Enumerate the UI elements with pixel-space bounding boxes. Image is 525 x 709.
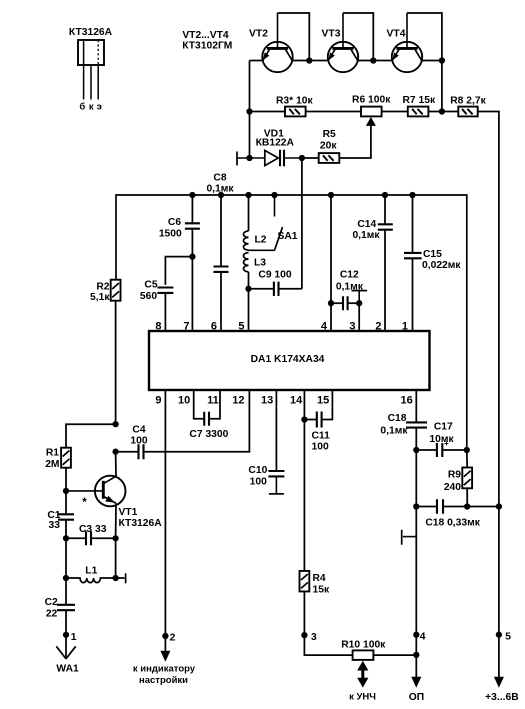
junction L1 left	[63, 575, 69, 581]
svg-text:КТ3126А: КТ3126А	[119, 518, 163, 529]
svg-text:VT1: VT1	[119, 507, 138, 518]
junction node VT4 collector	[439, 57, 445, 63]
node 5 on +supply rail	[496, 632, 502, 638]
junction bus-C8	[218, 192, 224, 198]
wire pin 13 down to C10	[275, 390, 277, 471]
capacitor C18 0,1мк	[380, 413, 427, 437]
svg-text:КВ122А: КВ122А	[256, 138, 295, 149]
svg-text:C9 100: C9 100	[258, 270, 291, 281]
svg-text:L1: L1	[85, 566, 97, 577]
wire R1/R2 node	[112, 421, 118, 427]
junction bus-pin5	[245, 192, 251, 198]
inductor L1	[66, 566, 116, 583]
wire pin3 line	[358, 303, 360, 331]
wire C12 left to pin4 line	[331, 302, 343, 304]
wire VT2 collector to VT3 emitter	[292, 60, 328, 62]
wire node to R1 top	[66, 424, 116, 448]
svg-text:100: 100	[312, 442, 329, 453]
svg-text:L3: L3	[254, 257, 266, 268]
resistor R2 5,1к	[90, 280, 120, 303]
svg-text:к индикатору: к индикатору	[133, 663, 196, 674]
transistor VT3	[322, 13, 359, 72]
junction +rail/C18b	[496, 503, 502, 509]
node 3	[301, 632, 307, 638]
svg-text:240: 240	[444, 482, 461, 493]
svg-text:C18: C18	[388, 413, 407, 424]
svg-text:R6 100к: R6 100к	[352, 95, 391, 106]
feedback loop wire VT2 base-collector	[278, 13, 310, 61]
capacitor C18 0,33мк	[425, 499, 480, 528]
node 1	[63, 632, 69, 638]
svg-text:VT3: VT3	[322, 29, 341, 40]
junction pin7-C5 branch	[189, 253, 195, 259]
wire R4 to node 3	[303, 591, 305, 635]
svg-text:C2: C2	[45, 597, 58, 608]
svg-text:R8 2,7к: R8 2,7к	[450, 95, 486, 106]
IC DA1 К174ХА34	[149, 331, 430, 390]
wire C9 node to pin 5	[248, 289, 250, 331]
svg-text:0,1мк: 0,1мк	[352, 230, 380, 241]
svg-text:22: 22	[46, 608, 58, 619]
antenna WA1	[56, 635, 79, 675]
transistor VT2	[249, 13, 293, 72]
svg-text:0,1мк: 0,1мк	[380, 426, 408, 437]
svg-text:7: 7	[183, 320, 189, 332]
svg-text:12: 12	[232, 394, 244, 406]
wire pin 9 down to node 2	[164, 390, 166, 636]
junction pin16/C18b	[413, 503, 419, 509]
wire VT4 node to R8	[442, 111, 459, 113]
stub with T-bar on ОП line	[403, 536, 416, 538]
wire L3 to C9 node	[248, 272, 250, 289]
wire C18b to R9 node to +rail	[443, 506, 499, 508]
wire pin1 line	[412, 195, 414, 253]
junction bus-pin1	[409, 192, 415, 198]
svg-text:C7 3300: C7 3300	[189, 429, 228, 440]
wire pin14 down to R4	[303, 420, 305, 571]
wire pin6 line	[220, 195, 222, 267]
capacitor C1 33	[47, 510, 74, 531]
capacitor C14 0,1мк on pin 2 line	[352, 219, 392, 241]
varicap diode VD1 КВ122А	[237, 128, 302, 166]
junction node VD1 cathode	[299, 155, 305, 161]
svg-text:1: 1	[71, 632, 77, 643]
inductor L2	[244, 231, 267, 250]
potentiometer R6 100к	[352, 95, 391, 117]
wire R10 right to ОП line	[373, 654, 416, 656]
svg-text:15: 15	[317, 394, 329, 406]
wire bus to L2	[248, 195, 250, 231]
junction node VT2 collector	[306, 57, 312, 63]
svg-text:C8: C8	[213, 172, 226, 183]
svg-text:DA1 K174XA34: DA1 K174XA34	[251, 354, 325, 365]
junction bus-pin2	[382, 192, 388, 198]
capacitor C2 22	[45, 597, 75, 619]
capacitor C11 100 to pin 15	[312, 412, 331, 453]
svg-text:R10 100к: R10 100к	[341, 639, 386, 650]
wire bus rail to R9	[466, 450, 468, 468]
svg-text:0,022мк: 0,022мк	[422, 260, 461, 271]
R6 wiper arrow	[366, 117, 376, 126]
junction C4/VT1	[112, 449, 118, 455]
wire VT1 emitter up to C4 node	[115, 452, 117, 477]
svg-text:0,1мк: 0,1мк	[206, 183, 234, 194]
svg-text:+: +	[444, 439, 449, 448]
svg-text:C14: C14	[357, 219, 376, 230]
transistor VT1 КТ3126А	[66, 476, 162, 530]
node 2	[162, 633, 168, 639]
svg-text:C15: C15	[423, 249, 442, 260]
svg-text:VT4: VT4	[387, 29, 406, 40]
junction C3 left	[63, 535, 69, 541]
svg-text:560: 560	[140, 291, 157, 302]
wire VT4 collector	[422, 60, 442, 62]
svg-text:R2: R2	[96, 282, 109, 293]
svg-text:100: 100	[250, 477, 267, 488]
wire rail to R3	[250, 111, 286, 113]
svg-text:R9: R9	[448, 470, 461, 481]
svg-text:11: 11	[207, 394, 219, 406]
svg-text:э: э	[97, 102, 102, 113]
svg-text:R7 15к: R7 15к	[402, 95, 435, 106]
svg-text:2: 2	[170, 633, 176, 644]
wire C18 to C17 node	[415, 428, 417, 450]
junction pin14/C11	[301, 416, 307, 422]
capacitor C9 100	[258, 270, 291, 296]
svg-text:C17: C17	[434, 422, 453, 433]
wire pin16 line down through stub to node 4	[415, 450, 417, 655]
junction C17 left	[413, 447, 419, 453]
resistor R4 15к	[300, 571, 330, 596]
wire C9 left	[249, 288, 274, 290]
svg-text:13: 13	[261, 394, 273, 406]
svg-text:КТ3126А: КТ3126А	[69, 27, 113, 38]
svg-text:1500: 1500	[159, 228, 182, 239]
svg-text:C18 0,33мк: C18 0,33мк	[425, 518, 480, 529]
wire C12 right to pin3 line	[348, 302, 360, 304]
capacitor C3 33	[79, 524, 107, 545]
wire L1 right stub with T-bar	[116, 577, 125, 579]
junction bus-pin4	[328, 192, 334, 198]
wire pin2 line	[384, 195, 386, 224]
svg-text:R5: R5	[323, 129, 336, 140]
wire R7 to VT4 node	[428, 111, 442, 113]
wire pin16 line to C18b	[416, 506, 436, 508]
svg-text:C12: C12	[340, 269, 359, 280]
label VT2...VT4 КТ3102ГМ	[182, 30, 232, 51]
capacitor C15 0,022мк on pin 1 line	[404, 249, 461, 271]
wire C5 to pin 8	[164, 293, 166, 331]
svg-text:5: 5	[238, 320, 244, 332]
wire C4 left to VT1 collector node	[116, 451, 139, 453]
wire pin 14 down	[303, 390, 305, 420]
svg-text:КТ3102ГМ: КТ3102ГМ	[182, 40, 232, 51]
svg-text:10: 10	[178, 394, 190, 406]
junction L1 right	[112, 575, 118, 581]
wire VD1 node down to C9 (crosses bus)	[301, 158, 303, 289]
svg-text:20к: 20к	[320, 140, 337, 151]
junction R9 bottom	[464, 503, 470, 509]
switch SA1	[249, 195, 298, 250]
svg-text:WA1: WA1	[56, 664, 79, 675]
junction bus-SA1	[271, 192, 277, 198]
wire base node to C1	[65, 491, 67, 514]
arrow +3...6В supply	[498, 635, 500, 678]
svg-text:+3...6В: +3...6В	[485, 692, 519, 703]
svg-text:L2: L2	[254, 234, 266, 245]
R10 wiper double arrow to к УНЧ	[349, 661, 376, 703]
svg-text:C6: C6	[168, 217, 181, 228]
wire VT1 collector down	[115, 503, 117, 538]
wire R6 to R7	[382, 111, 408, 113]
wire C1 to C3 node	[65, 520, 67, 539]
wire C9 right to varicap line	[279, 288, 302, 290]
junction C3 right	[112, 535, 118, 541]
resistor R7 15к	[402, 95, 435, 117]
wire pin 12 down and left to C4	[144, 390, 249, 452]
label C8 0,1мк	[206, 172, 234, 194]
wire pin4 line	[330, 195, 332, 331]
wire R9 to C18b node	[466, 488, 468, 506]
svg-text:1: 1	[402, 320, 408, 332]
svg-text:4: 4	[420, 632, 426, 643]
svg-text:3: 3	[349, 320, 355, 332]
svg-text:6: 6	[211, 320, 217, 332]
resistor R9 240	[444, 468, 472, 494]
junction C12 left	[328, 300, 334, 306]
wire L1 to C2	[65, 578, 67, 605]
junction base node	[63, 488, 69, 494]
wire R8 to +supply right rail	[478, 112, 499, 635]
resistor R3* 10к	[276, 95, 313, 116]
svg-text:*: *	[82, 495, 87, 509]
capacitor C5 560 on pin 8 line	[140, 279, 173, 302]
junction bus-pin7	[189, 192, 195, 198]
transistor package drawing КТ3126А (top left)	[69, 27, 113, 112]
wire R3 to R6	[306, 111, 361, 113]
junction node L3/C9/pin5	[245, 286, 251, 292]
svg-text:C3 33: C3 33	[79, 524, 107, 535]
svg-text:R3* 10к: R3* 10к	[276, 95, 313, 106]
capacitor C12 0,1мк with top stub	[336, 269, 367, 310]
transistor VT4	[387, 13, 423, 72]
wire VT4 collector down to resistor row	[441, 61, 443, 112]
svg-text:б: б	[79, 102, 85, 113]
wire tuning bus line	[116, 195, 467, 450]
svg-text:4: 4	[321, 320, 328, 332]
capacitor C4 100	[130, 425, 147, 460]
wire VT3 collector to VT4 emitter	[358, 60, 393, 62]
svg-text:VT2: VT2	[249, 29, 268, 40]
svg-text:C11: C11	[312, 431, 331, 442]
svg-text:ОП: ОП	[409, 692, 424, 703]
wire left rail emitters down to VD1 row	[249, 61, 251, 159]
svg-text:5: 5	[505, 632, 511, 643]
svg-text:настройки: настройки	[139, 675, 188, 686]
junction node VT3 collector	[370, 57, 376, 63]
wire R2 down to VT1 node	[115, 301, 117, 424]
wire VD1 node to R5	[302, 157, 319, 159]
wire node 3 to R10	[304, 635, 352, 655]
svg-text:5,1к: 5,1к	[90, 292, 110, 303]
svg-text:15к: 15к	[313, 585, 330, 596]
wire C2 to node 1	[65, 610, 67, 635]
inductor L3	[244, 253, 267, 272]
node 4	[413, 632, 419, 638]
feedback loop wire VT3 base-collector	[343, 13, 373, 61]
svg-text:2M: 2M	[45, 459, 59, 470]
svg-text:C5: C5	[144, 279, 157, 290]
svg-text:8: 8	[155, 320, 161, 332]
resistor R1 2M	[45, 448, 71, 471]
wire pin 16 down	[415, 390, 417, 422]
wire pin7 line	[191, 195, 193, 223]
svg-text:2: 2	[375, 320, 381, 332]
svg-text:C10: C10	[248, 465, 267, 476]
label к индикатору настройки	[133, 663, 196, 686]
wire R5 to R6 wiper	[339, 126, 371, 159]
wire down to L1 row	[65, 538, 67, 578]
svg-text:C4: C4	[132, 425, 145, 436]
svg-text:9: 9	[155, 394, 161, 406]
capacitor C10 100	[248, 465, 284, 494]
svg-text:R1: R1	[46, 448, 59, 459]
capacitor C17 10мк (polar)	[429, 422, 454, 457]
svg-text:14: 14	[290, 394, 303, 406]
svg-text:16: 16	[401, 394, 413, 406]
wire branch to C5	[165, 257, 192, 285]
junction R10/ОП line	[413, 652, 419, 658]
potentiometer R10 100к	[341, 639, 386, 660]
arrow ОП output	[415, 655, 417, 678]
junction C12 right	[356, 300, 362, 306]
capacitor C8 0,1мк on pin 6 line	[214, 267, 229, 272]
arrow to tuning indicator	[164, 636, 166, 652]
wire VT2 emitter to left rail	[250, 60, 263, 62]
wire R1 to base node	[65, 468, 67, 491]
capacitor C6 1500 on pin 7 line	[159, 217, 200, 240]
svg-text:к: к	[89, 102, 94, 113]
capacitor C7 3300 between pins 10 and 11	[189, 390, 228, 440]
svg-text:R4: R4	[313, 573, 326, 584]
junction C17 right / bus rail bottom	[464, 447, 470, 453]
resistor R8 2,7к	[450, 95, 486, 116]
feedback loop wire VT4 base-collector	[407, 13, 442, 61]
svg-text:к УНЧ: к УНЧ	[349, 691, 376, 702]
svg-text:3: 3	[311, 632, 317, 643]
svg-text:33: 33	[49, 520, 61, 531]
resistor R5 20к	[319, 129, 340, 163]
